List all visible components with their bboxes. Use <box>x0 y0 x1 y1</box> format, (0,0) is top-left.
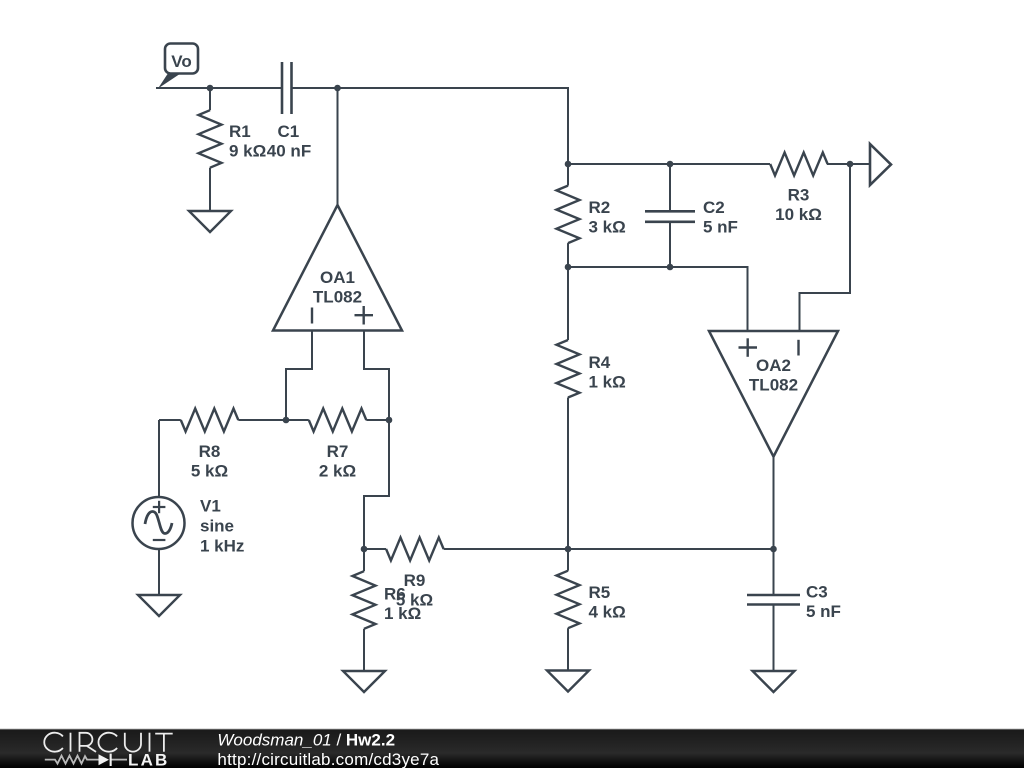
svg-text:sine: sine <box>200 517 234 536</box>
svg-text:9 kΩ: 9 kΩ <box>229 142 266 161</box>
svg-text:3 kΩ: 3 kΩ <box>589 218 626 237</box>
svg-text:R9: R9 <box>404 571 426 590</box>
node: R2 bottom junction <box>565 264 572 271</box>
resistor R1 <box>209 88 211 110</box>
svg-text:1 kHz: 1 kHz <box>200 537 244 556</box>
OA1 minus marker <box>311 308 313 324</box>
output flag (terminal) <box>870 144 891 185</box>
resistor R4 <box>567 267 569 340</box>
svg-text:Woodsman_01 / Hw2.2: Woodsman_01 / Hw2.2 <box>217 730 395 749</box>
svg-text:R4: R4 <box>589 353 611 372</box>
ground below C3 <box>753 671 795 692</box>
wire: OA2 output down to bottom rail <box>773 457 775 549</box>
wire: R2 bottom node to OA2 non-inverting input <box>568 267 748 331</box>
svg-text:C1: C1 <box>278 122 300 141</box>
resistor R2 <box>567 164 569 186</box>
svg-text:http://circuitlab.com/cd3ye7a: http://circuitlab.com/cd3ye7a <box>217 750 439 768</box>
resistor R7 <box>286 419 309 421</box>
wire: V1 top to R8 left lead <box>158 420 160 497</box>
svg-text:R1: R1 <box>229 122 251 141</box>
wire: R3 right lead to output flag <box>827 163 870 165</box>
capacitor C2 <box>669 164 671 211</box>
svg-text:R7: R7 <box>327 442 349 461</box>
svg-text:5 nF: 5 nF <box>806 602 841 621</box>
wire: bottom rail R9 right to R5 and OA2 output node <box>444 548 774 550</box>
svg-text:R2: R2 <box>589 198 611 217</box>
ground below R6 <box>343 671 385 692</box>
svg-text:C3: C3 <box>806 583 828 602</box>
resistor R6 <box>363 549 365 571</box>
CircuitLab logo: CIRCUIT wordmark <box>44 733 172 752</box>
wire: bottom rail node down to C3 <box>773 549 775 595</box>
wire: output node down and over to OA2 inverting input <box>800 164 851 331</box>
wire: OA1 non-inverting input down to R7 right node and R9 node <box>364 330 389 549</box>
ground below V1 <box>138 595 180 616</box>
svg-text:4 kΩ: 4 kΩ <box>589 603 626 622</box>
node: C2 bottom junction <box>667 264 674 271</box>
node: R8/R7 junction <box>283 417 290 424</box>
node: R9/R6 junction <box>361 546 368 553</box>
svg-text:5 nF: 5 nF <box>703 218 738 237</box>
capacitor C1 <box>282 62 292 114</box>
CircuitLab logo: resistor-diode symbol <box>45 756 127 764</box>
svg-text:OA2: OA2 <box>756 356 791 375</box>
resistor R8 <box>159 419 181 421</box>
node: R3/output junction <box>847 161 854 168</box>
wire: V1 bottom to ground <box>158 549 160 595</box>
op-amp OA2 <box>709 331 838 457</box>
svg-text:5 kΩ: 5 kΩ <box>191 462 228 481</box>
svg-text:TL082: TL082 <box>313 288 362 307</box>
svg-text:C2: C2 <box>703 198 725 217</box>
svg-text:R3: R3 <box>788 186 810 205</box>
node: R7 right junction <box>386 417 393 424</box>
resistor R5 <box>567 549 569 571</box>
svg-text:OA1: OA1 <box>320 268 355 287</box>
node: C2 top junction <box>667 161 674 168</box>
op-amp OA1 <box>273 205 402 331</box>
svg-text:R6: R6 <box>384 585 406 604</box>
node: OA2 output/C3 junction <box>770 546 777 553</box>
node flag Vo <box>158 73 182 89</box>
svg-text:1 kΩ: 1 kΩ <box>384 604 421 623</box>
ground below R1 <box>189 211 231 232</box>
capacitor C3 <box>747 595 800 605</box>
svg-text:40 nF: 40 nF <box>267 142 311 161</box>
V1 minus marker <box>153 539 166 541</box>
V1 plus marker <box>153 501 166 513</box>
OA1 plus marker <box>355 306 374 325</box>
OA2 minus marker <box>797 340 799 356</box>
wire: top rail right of C1 to corner and down to R2 node <box>292 88 569 164</box>
svg-text:R8: R8 <box>199 442 221 461</box>
ground below R5 <box>547 671 589 692</box>
resistor R9 <box>364 548 386 550</box>
svg-text:Vo: Vo <box>171 52 191 71</box>
OA2 plus marker <box>739 338 758 357</box>
voltage source V1 <box>133 497 185 549</box>
V1 sine squiggle <box>145 512 172 534</box>
svg-text:V1: V1 <box>200 497 221 516</box>
svg-text:10 kΩ: 10 kΩ <box>775 205 822 224</box>
wire: R2 top node horizontal run to R3 <box>568 163 770 165</box>
node: OA1 output junction <box>334 85 341 92</box>
node: Vo/R1 junction <box>207 85 214 92</box>
wire: OA1 inverting input down to R8/R7 node <box>286 330 312 420</box>
wire: OA1 output up to top rail <box>337 88 339 205</box>
svg-text:1 kΩ: 1 kΩ <box>589 373 626 392</box>
node: R4/R5 junction <box>565 546 572 553</box>
node: R2 top junction <box>565 161 572 168</box>
resistor R3 <box>770 153 827 176</box>
svg-text:R5: R5 <box>589 583 611 602</box>
svg-text:2 kΩ: 2 kΩ <box>319 462 356 481</box>
svg-text:TL082: TL082 <box>749 376 798 395</box>
wire: Vo node top rail left of C1 <box>156 87 282 89</box>
svg-text:LAB: LAB <box>128 751 170 768</box>
